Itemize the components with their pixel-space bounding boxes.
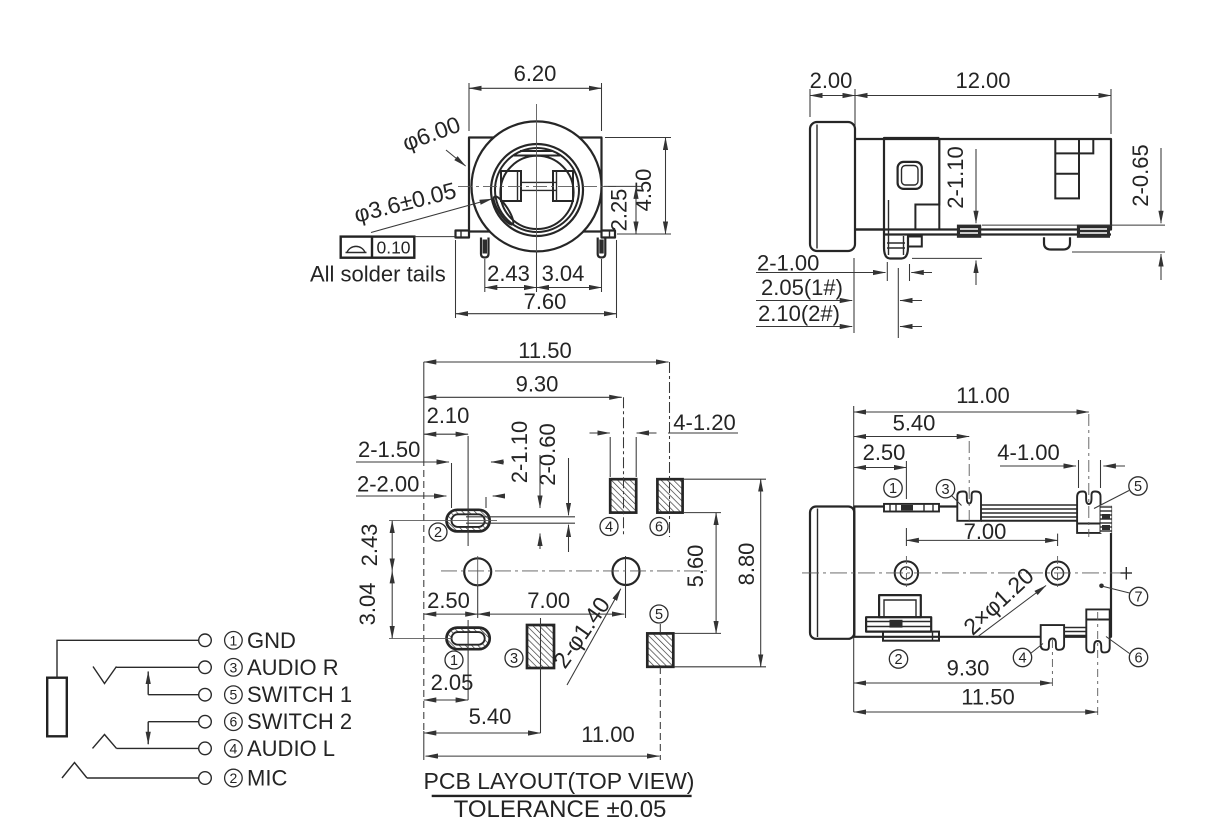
svg-text:2: 2 [894, 652, 902, 668]
svg-text:SWITCH 2: SWITCH 2 [247, 709, 352, 734]
svg-text:11.00: 11.00 [581, 722, 634, 747]
svg-text:3: 3 [230, 659, 238, 675]
svg-text:4: 4 [230, 740, 238, 756]
svg-text:2-0.60: 2-0.60 [535, 423, 560, 485]
svg-text:5: 5 [1134, 479, 1142, 495]
svg-text:3.04: 3.04 [542, 261, 585, 286]
svg-text:2-2.00: 2-2.00 [357, 472, 419, 497]
svg-text:4: 4 [1018, 651, 1026, 667]
svg-text:7.60: 7.60 [524, 289, 567, 314]
svg-text:6: 6 [230, 714, 238, 730]
svg-text:GND: GND [247, 628, 296, 653]
svg-text:2.05(1#): 2.05(1#) [761, 275, 843, 300]
svg-text:3: 3 [510, 651, 518, 667]
svg-text:3: 3 [941, 482, 949, 498]
svg-text:2.43: 2.43 [487, 261, 530, 286]
svg-text:1: 1 [889, 481, 897, 497]
svg-text:SWITCH 1: SWITCH 1 [247, 682, 352, 707]
svg-text:2.43: 2.43 [357, 524, 382, 567]
svg-text:5.40: 5.40 [893, 411, 936, 436]
svg-text:2.10: 2.10 [427, 403, 470, 428]
svg-text:All solder tails: All solder tails [310, 262, 446, 287]
svg-text:2.00: 2.00 [810, 68, 853, 93]
svg-text:6: 6 [655, 520, 663, 536]
svg-text:11.00: 11.00 [956, 383, 1009, 408]
svg-text:2.10(2#): 2.10(2#) [758, 301, 840, 326]
svg-text:2.50: 2.50 [863, 440, 906, 465]
svg-text:1: 1 [230, 632, 238, 648]
svg-text:AUDIO L: AUDIO L [247, 736, 335, 761]
svg-text:0.10: 0.10 [376, 238, 410, 258]
svg-text:2-1.10: 2-1.10 [507, 421, 532, 483]
svg-text:2-1.00: 2-1.00 [757, 251, 819, 276]
svg-text:2.25: 2.25 [607, 189, 632, 232]
svg-text:2.50: 2.50 [427, 588, 470, 613]
svg-text:2.05: 2.05 [431, 670, 474, 695]
svg-text:5.40: 5.40 [469, 704, 512, 729]
svg-text:11.50: 11.50 [518, 338, 571, 363]
svg-text:8.80: 8.80 [734, 543, 759, 586]
svg-text:5: 5 [230, 687, 238, 703]
svg-text:2: 2 [434, 525, 442, 541]
svg-text:7.00: 7.00 [527, 588, 570, 613]
svg-text:MIC: MIC [247, 766, 287, 791]
svg-text:12.00: 12.00 [955, 68, 1010, 93]
svg-text:2-0.65: 2-0.65 [1128, 144, 1153, 206]
svg-text:1: 1 [450, 653, 458, 669]
svg-text:4-1.00: 4-1.00 [997, 440, 1059, 465]
svg-text:TOLERANCE ±0.05: TOLERANCE ±0.05 [454, 796, 667, 823]
svg-text:4-1.20: 4-1.20 [673, 410, 735, 435]
svg-text:9.30: 9.30 [516, 372, 559, 397]
svg-text:2-1.50: 2-1.50 [358, 437, 420, 462]
svg-text:6: 6 [1134, 651, 1142, 667]
svg-text:2: 2 [230, 770, 238, 786]
svg-text:9.30: 9.30 [947, 656, 990, 681]
svg-text:2-1.10: 2-1.10 [943, 146, 968, 208]
svg-text:5.60: 5.60 [683, 545, 708, 588]
svg-text:7: 7 [1134, 590, 1142, 606]
svg-text:PCB LAYOUT(TOP VIEW): PCB LAYOUT(TOP VIEW) [424, 768, 695, 794]
svg-text:3.04: 3.04 [355, 583, 380, 626]
svg-text:11.50: 11.50 [961, 685, 1014, 710]
svg-text:5: 5 [655, 607, 663, 623]
svg-text:4: 4 [605, 520, 613, 536]
svg-text:6.20: 6.20 [514, 61, 557, 86]
svg-text:4.50: 4.50 [631, 169, 656, 212]
svg-text:AUDIO R: AUDIO R [247, 655, 339, 680]
